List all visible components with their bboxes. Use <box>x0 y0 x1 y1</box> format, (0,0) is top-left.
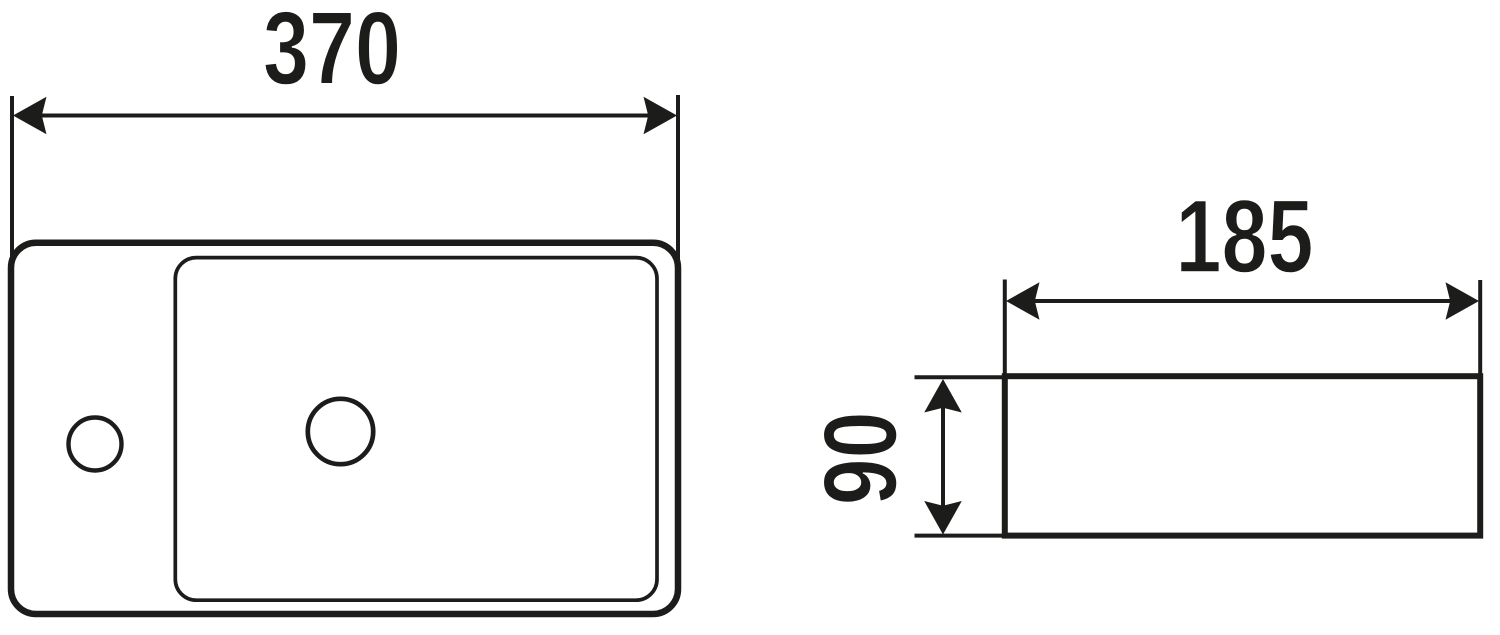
drain hole <box>308 399 373 464</box>
arrowhead left of 185 dimension <box>1006 282 1040 320</box>
arrowhead top of 90 dimension <box>924 379 962 413</box>
extension line bottom of 90 dimension <box>915 534 1007 538</box>
arrowhead left of 370 dimension <box>13 97 47 135</box>
extension line left of 185 dimension <box>1003 280 1007 377</box>
arrowhead bottom of 90 dimension <box>924 501 962 535</box>
extension line left of 370 dimension <box>10 96 14 290</box>
dimension line 370 <box>30 114 660 118</box>
arrowhead right of 370 dimension <box>644 97 678 135</box>
faucet hole <box>69 418 122 471</box>
dimension line 90 <box>941 393 945 520</box>
side view body rectangle <box>1005 376 1480 535</box>
svg-text:90: 90 <box>803 412 919 506</box>
svg-text:370: 370 <box>263 0 401 106</box>
basin outer rim (top view) <box>11 243 678 614</box>
extension line right of 185 dimension <box>1478 280 1482 376</box>
basin inner bowl (top view) <box>175 258 657 601</box>
svg-text:185: 185 <box>1176 178 1314 294</box>
extension line right of 370 dimension <box>676 95 680 290</box>
dimension line 185 <box>1020 299 1465 303</box>
arrowhead right of 185 dimension <box>1446 282 1480 320</box>
extension line top of 90 dimension <box>915 375 1007 379</box>
